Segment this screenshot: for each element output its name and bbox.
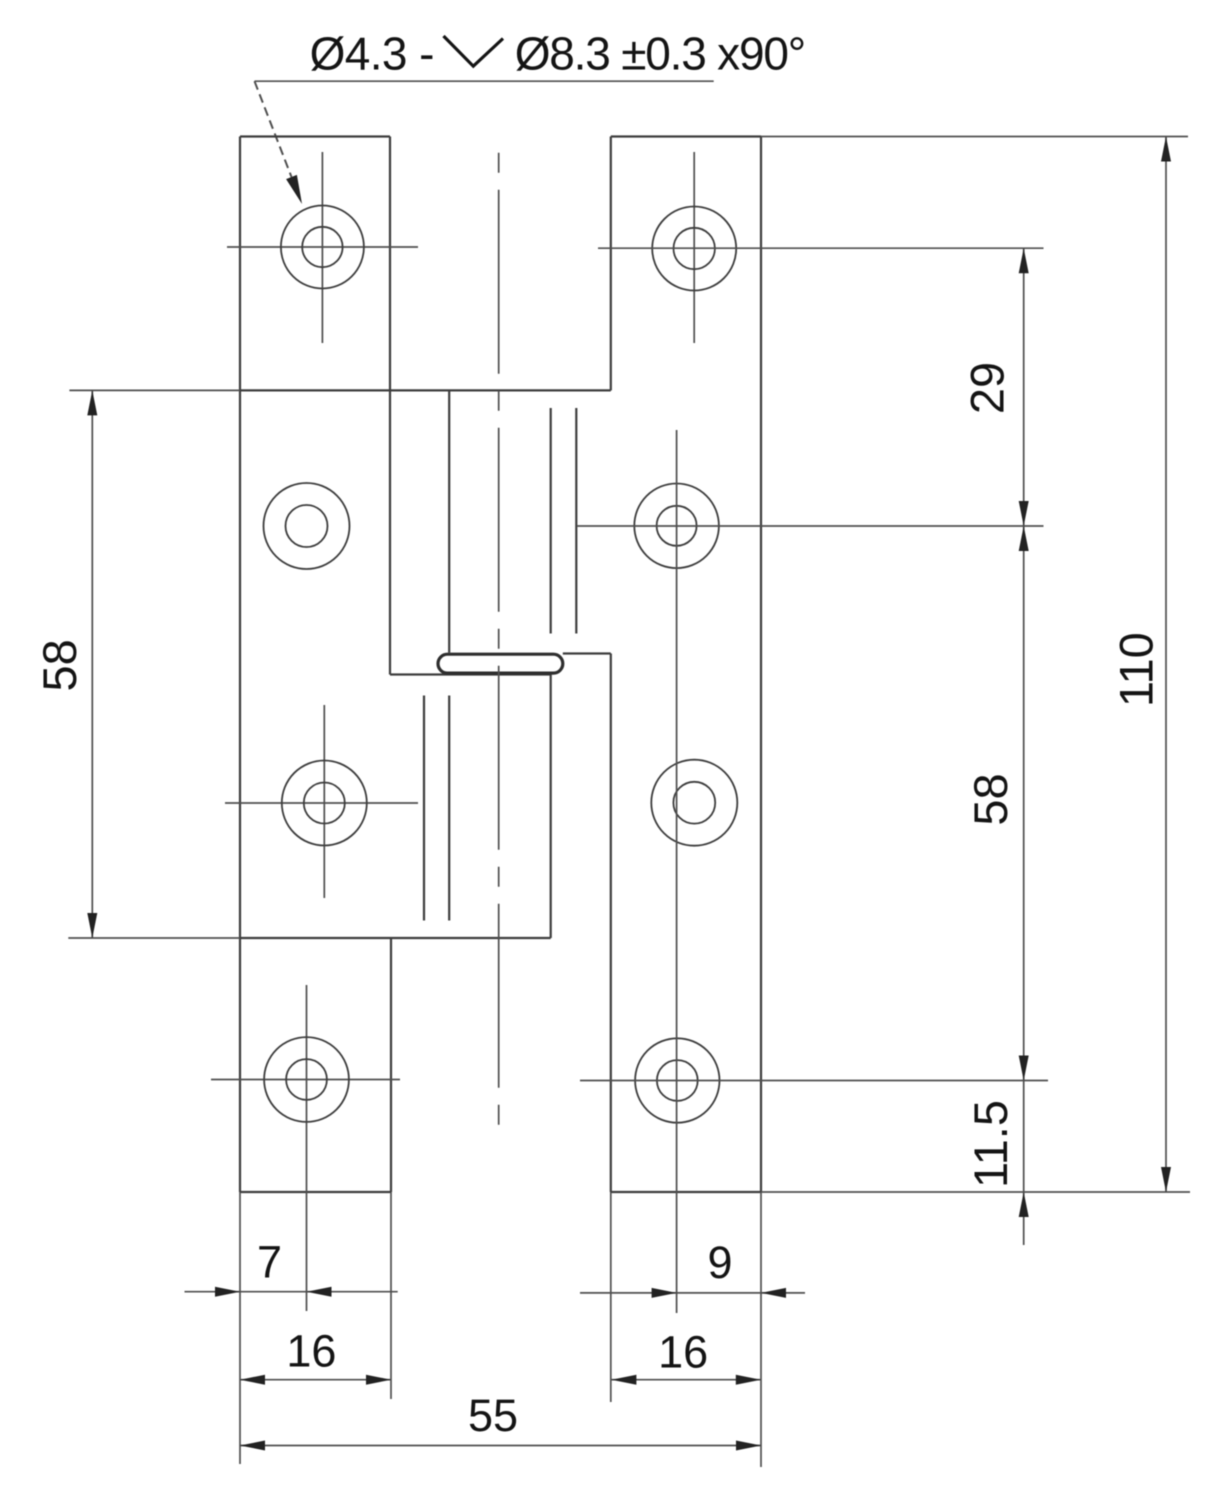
left leaf right edge upper [389, 137, 391, 675]
dimension 110 line [1161, 137, 1171, 1193]
svg-text:16: 16 [286, 1326, 336, 1377]
left leaf bottom edge [240, 1191, 391, 1193]
right leaf bottom edge [611, 1191, 761, 1193]
right leaf left edge extension below [610, 1192, 612, 1402]
dimension 16 right line [611, 1375, 760, 1385]
right leaf left edge upper [610, 137, 612, 391]
dimension chain line right [1019, 248, 1029, 1245]
R2 crosshair horizontal / extension [577, 525, 1043, 527]
pin center line (dash-dot) [498, 153, 500, 1125]
knuckle line lower-left [423, 696, 425, 921]
knuckle line lower-mid [448, 696, 450, 921]
svg-text:58: 58 [33, 639, 86, 691]
leader line to hole L1 [255, 81, 303, 204]
svg-text:Ø8.3 ±0.3 x90°: Ø8.3 ±0.3 x90° [515, 28, 805, 80]
left leaf wide-section bottom edge [240, 937, 551, 939]
extension bottom right for 110 [761, 1191, 1190, 1193]
extension top right for 110 [761, 136, 1188, 138]
countersink note text [310, 28, 805, 80]
dimension 9 line [580, 1288, 805, 1298]
left leaf top edge [240, 135, 390, 137]
leader shoulder line [255, 80, 714, 82]
L4 center extension below [306, 1175, 308, 1311]
svg-text:55: 55 [468, 1390, 518, 1441]
left leaf right edge extension below [390, 1192, 392, 1399]
hole R2 [634, 484, 719, 569]
right holes center line [676, 430, 678, 1313]
lower block right edge [550, 675, 552, 939]
svg-text:7: 7 [257, 1236, 282, 1287]
right leaf right edge extension below [760, 1192, 762, 1467]
dimension 7 line [185, 1287, 398, 1297]
R4 crosshair horizontal / extension for 11.5 dim [580, 1080, 1048, 1082]
hole R4 [635, 1038, 719, 1122]
extension line y938 left [68, 937, 240, 939]
left leaf wide-section top edge [240, 389, 611, 391]
R1 crosshair horizontal / extension for 29 dim [598, 247, 1044, 249]
capsule shoulder line [563, 652, 611, 654]
left leaf right edge lower [390, 938, 392, 1192]
hole L3 [225, 705, 418, 898]
dimension 55 line [240, 1441, 761, 1451]
right leaf top edge [611, 135, 761, 137]
hinge pin capsule [438, 654, 563, 673]
knuckle line upper-left [448, 390, 450, 652]
hole R1 (top-right) [652, 152, 736, 343]
right leaf left edge lower [610, 654, 612, 1193]
svg-text:58: 58 [964, 773, 1017, 825]
knuckle line upper-mid [550, 408, 552, 634]
left edge extension below [239, 1192, 241, 1464]
hole R3 [651, 760, 737, 846]
hole L4 [211, 985, 400, 1175]
svg-text:Ø4.3 -: Ø4.3 - [310, 28, 434, 80]
svg-text:9: 9 [707, 1237, 732, 1288]
dimension 58 left line [87, 390, 97, 938]
svg-text:110: 110 [1110, 632, 1163, 707]
upper knuckle block bottom edge [390, 673, 551, 675]
countersink V symbol [444, 36, 504, 66]
svg-text:16: 16 [658, 1327, 708, 1378]
svg-text:29: 29 [961, 362, 1014, 414]
left leaf left edge [239, 137, 241, 1193]
hole L1 (countersunk, top-left) [227, 152, 418, 343]
hole L2 [264, 483, 350, 569]
dimension 16 left line [240, 1375, 391, 1385]
extension line y390 left [69, 389, 240, 391]
right leaf right edge [760, 137, 762, 1193]
svg-text:11.5: 11.5 [964, 1100, 1017, 1188]
knuckle line upper-right [575, 408, 577, 634]
